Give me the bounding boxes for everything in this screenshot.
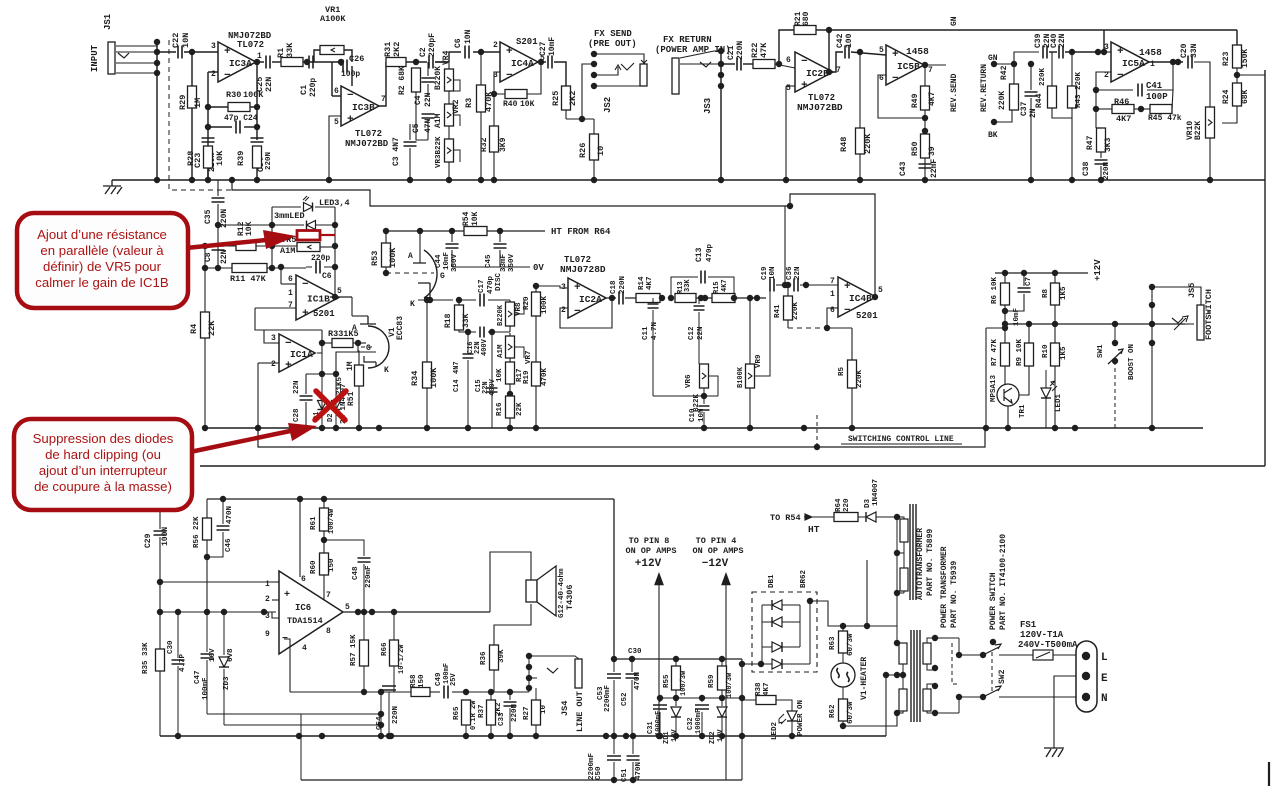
svg-text:350V: 350V xyxy=(508,253,516,272)
ground xyxy=(103,180,122,194)
svg-text:ZD2: ZD2 xyxy=(709,731,717,744)
led LED1 xyxy=(1041,388,1051,398)
power transformer core xyxy=(911,630,920,722)
wire primary dashed link xyxy=(952,643,960,684)
capacitor C4 xyxy=(422,78,435,82)
wire line out row xyxy=(466,691,529,693)
svg-text:T4306: T4306 xyxy=(565,584,575,610)
wire bridge interconnect xyxy=(761,605,763,664)
transformer secondary 2 xyxy=(899,689,907,711)
potentiometer VR7 xyxy=(506,336,515,358)
svg-text:R56 22K: R56 22K xyxy=(193,516,201,548)
wire secondary leads xyxy=(897,626,903,643)
svg-text:7: 7 xyxy=(326,591,331,600)
svg-text:BOOST ON: BOOST ON xyxy=(1128,344,1136,380)
svg-text:5: 5 xyxy=(878,286,883,295)
svg-text:4K7: 4K7 xyxy=(646,276,654,290)
svg-text:de hard clipping (ou: de hard clipping (ou xyxy=(45,447,161,462)
wire bottom frame top xyxy=(207,498,614,500)
capacitor C16 xyxy=(480,327,484,338)
svg-text:1: 1 xyxy=(265,580,270,589)
svg-text:5: 5 xyxy=(334,118,339,127)
svg-text:240V-T500mA: 240V-T500mA xyxy=(1018,640,1078,650)
svg-text:R64: R64 xyxy=(835,498,843,512)
svg-text:0V: 0V xyxy=(533,263,544,273)
svg-text:R36: R36 xyxy=(480,651,488,665)
svg-text:MPSA13: MPSA13 xyxy=(990,374,998,402)
svg-text:A1M: A1M xyxy=(497,344,505,358)
resistor R1 xyxy=(272,61,281,63)
wire +12V rail xyxy=(995,272,1088,274)
svg-text:FS1: FS1 xyxy=(1020,620,1037,630)
arrow -12V xyxy=(725,575,727,780)
capacitor C18 xyxy=(619,292,623,305)
resistor R43 xyxy=(1071,52,1073,86)
svg-text:+: + xyxy=(801,80,808,92)
svg-text:TO PIN 8: TO PIN 8 xyxy=(629,536,670,546)
resistor R13 xyxy=(675,294,696,303)
svg-text:R55: R55 xyxy=(663,674,671,688)
wire IC2A output xyxy=(604,297,616,299)
wire LED row 2 xyxy=(218,224,272,226)
svg-text:K: K xyxy=(384,366,389,375)
jack JS2 xyxy=(591,51,597,57)
scan artifact mark bottom right xyxy=(1268,762,1270,786)
svg-text:4N7: 4N7 xyxy=(453,361,461,374)
svg-text:IC5B: IC5B xyxy=(897,61,920,72)
svg-text:C6: C6 xyxy=(322,272,332,281)
ground mains earth xyxy=(1044,748,1064,757)
resistor R35 xyxy=(156,649,165,671)
resistor R46 xyxy=(1095,90,1097,109)
svg-text:100/3W: 100/3W xyxy=(680,670,688,696)
capacitor C53 xyxy=(607,674,621,678)
capacitor C35 xyxy=(217,180,219,196)
svg-text:5201: 5201 xyxy=(856,311,878,321)
svg-text:SWITCHING CONTROL LINE: SWITCHING CONTROL LINE xyxy=(848,435,954,444)
resistor R11 xyxy=(205,267,232,269)
autotransformer core xyxy=(910,504,916,600)
svg-text:POWER TRANSFORMER: POWER TRANSFORMER xyxy=(940,546,949,628)
wire VR9 wiper to C19 xyxy=(754,288,770,376)
resistor R16 xyxy=(506,396,515,418)
wire bridge to rails xyxy=(741,659,743,780)
diode D3 xyxy=(858,516,866,518)
svg-text:+: + xyxy=(347,114,354,126)
svg-text:A: A xyxy=(352,324,357,333)
svg-text:470p: 470p xyxy=(487,275,495,294)
wire reg node row xyxy=(660,697,742,699)
wire IC6 pin9 feedback xyxy=(279,634,290,636)
wire IC5A -in xyxy=(1096,72,1111,90)
svg-text:A1M: A1M xyxy=(280,246,295,256)
wire IC2B +in xyxy=(786,85,795,87)
wire zener rows xyxy=(207,713,381,715)
svg-text:7: 7 xyxy=(288,301,293,310)
wire base to switching line xyxy=(986,327,1005,329)
svg-text:JS1: JS1 xyxy=(103,13,113,30)
svg-text:10K: 10K xyxy=(471,211,480,226)
svg-text:220p: 220p xyxy=(309,78,318,97)
svg-text:R27: R27 xyxy=(523,706,531,720)
svg-text:V1-HEATER: V1-HEATER xyxy=(860,657,869,700)
svg-text:3: 3 xyxy=(265,612,270,621)
svg-text:C51: C51 xyxy=(621,768,629,782)
svg-text:+: + xyxy=(506,46,513,58)
zener ZD3 xyxy=(223,612,225,655)
svg-text:B100K: B100K xyxy=(737,366,745,388)
wire amp row2 xyxy=(160,611,276,613)
resistor R28 xyxy=(204,146,213,168)
svg-text:10: 10 xyxy=(540,704,548,714)
svg-text:FX RETURN: FX RETURN xyxy=(663,35,712,45)
svg-text:TDA1514: TDA1514 xyxy=(287,616,323,626)
svg-text:4K7: 4K7 xyxy=(763,682,771,696)
mains pin E xyxy=(1082,672,1090,680)
svg-text:+: + xyxy=(1117,46,1124,58)
resistor R9 xyxy=(1025,343,1034,366)
resistor R47 xyxy=(1095,109,1097,128)
svg-text:IC6: IC6 xyxy=(295,603,311,613)
svg-text:R53: R53 xyxy=(370,251,380,266)
svg-text:C50: C50 xyxy=(595,766,603,780)
svg-text:9: 9 xyxy=(265,630,270,639)
svg-text:33K: 33K xyxy=(462,313,471,328)
wire clipper node xyxy=(306,373,336,375)
svg-text:220N: 220N xyxy=(265,152,273,170)
wire amp input row xyxy=(160,581,271,583)
svg-text:C21: C21 xyxy=(727,45,736,60)
capacitor C31 xyxy=(659,698,661,702)
mains pin N xyxy=(1082,693,1090,701)
svg-text:220K: 220K xyxy=(856,369,864,388)
wire 0V bus bottom xyxy=(160,735,886,737)
mains connector xyxy=(1076,641,1097,712)
svg-text:R38: R38 xyxy=(755,682,763,696)
capacitor C32 xyxy=(701,698,703,702)
svg-text:R43 220K: R43 220K xyxy=(1075,71,1083,108)
svg-text:R19: R19 xyxy=(523,370,531,384)
svg-text:220mF: 220mF xyxy=(365,565,373,588)
svg-text:SW1: SW1 xyxy=(1097,344,1105,358)
capacitor C37 xyxy=(1025,92,1038,96)
svg-text:+: + xyxy=(224,46,231,58)
svg-text:C30: C30 xyxy=(628,648,642,656)
resistor R64 xyxy=(810,516,834,518)
svg-text:B220K: B220K xyxy=(434,66,443,90)
svg-text:POWER SWITCH: POWER SWITCH xyxy=(989,572,998,630)
svg-text:+: + xyxy=(302,308,309,320)
capacitor C52 xyxy=(626,674,639,678)
wire mid long line xyxy=(200,465,1265,467)
diode D2 xyxy=(332,401,341,410)
svg-text:HT FROM R64: HT FROM R64 xyxy=(551,227,611,237)
resistor R32 xyxy=(490,126,499,152)
svg-text:2: 2 xyxy=(561,306,566,315)
svg-text:NMJ0728D: NMJ0728D xyxy=(560,264,606,275)
capacitor C3 xyxy=(404,142,417,146)
svg-text:R48: R48 xyxy=(839,137,849,152)
zener ZD1 xyxy=(675,698,677,706)
resistor R40 xyxy=(494,72,505,94)
wire C22 to IC3A xyxy=(184,51,218,53)
svg-text:ajout d’un interrupteur: ajout d’un interrupteur xyxy=(39,463,168,478)
svg-text:R7 47K: R7 47K xyxy=(991,338,999,366)
resistor R6 xyxy=(1001,283,1010,305)
svg-text:220N: 220N xyxy=(392,706,400,724)
svg-text:R4: R4 xyxy=(189,324,199,334)
capacitor C25 xyxy=(266,56,270,69)
resistor R56 xyxy=(206,499,208,518)
svg-text:7: 7 xyxy=(836,66,841,75)
wire IC6 pin3 xyxy=(264,612,279,618)
svg-text:5: 5 xyxy=(345,603,350,612)
svg-text:C36: C36 xyxy=(786,266,794,280)
wire feedback row xyxy=(290,691,411,693)
svg-text:IC1B: IC1B xyxy=(307,294,330,305)
triode V1a xyxy=(424,250,437,298)
svg-text:VR9: VR9 xyxy=(755,354,763,368)
svg-text:N: N xyxy=(1101,693,1108,705)
wire IC6 pin6 supply xyxy=(299,499,301,577)
wire top ground bus xyxy=(112,179,1265,181)
svg-text:1K5: 1K5 xyxy=(1060,286,1068,300)
svg-text:10N: 10N xyxy=(769,266,777,280)
potentiometer VR10 xyxy=(1206,107,1215,138)
wire IC5B feedback xyxy=(878,75,925,118)
svg-text:3: 3 xyxy=(211,42,216,51)
svg-text:C47: C47 xyxy=(194,670,202,684)
wire right frame vertical xyxy=(1264,70,1266,466)
svg-text:C46: C46 xyxy=(225,538,233,552)
capacitor C38 xyxy=(1095,160,1108,164)
svg-text:R3: R3 xyxy=(464,98,474,108)
wire bridge to heater row xyxy=(810,601,897,626)
svg-text:10K: 10K xyxy=(520,100,535,109)
svg-text:R47: R47 xyxy=(1086,135,1095,150)
triode V1b xyxy=(368,326,389,368)
svg-text:C43: C43 xyxy=(899,161,908,176)
resistor R42 xyxy=(1010,84,1019,110)
svg-text:C44: C44 xyxy=(435,254,443,268)
capacitor C36 xyxy=(776,284,791,286)
svg-text:−12V: −12V xyxy=(702,558,729,570)
svg-text:1000mF: 1000mF xyxy=(655,711,663,736)
svg-text:A: A xyxy=(408,252,413,261)
svg-text:C45: C45 xyxy=(485,254,493,268)
svg-text:10mF: 10mF xyxy=(1013,307,1021,326)
wire neutral xyxy=(999,696,1078,698)
svg-text:R18: R18 xyxy=(444,313,453,328)
svg-text:6V8: 6V8 xyxy=(227,648,235,662)
svg-text:TO R54: TO R54 xyxy=(770,513,801,523)
svg-text:REV.SEND: REV.SEND xyxy=(950,73,959,112)
capacitor C40 xyxy=(1059,46,1063,59)
svg-text:10mF: 10mF xyxy=(548,37,557,56)
wire 0V row xyxy=(452,266,530,268)
wire top feed drop xyxy=(1103,30,1105,52)
svg-text:−: − xyxy=(224,70,231,82)
svg-text:220N: 220N xyxy=(619,276,627,294)
svg-text:SW2: SW2 xyxy=(998,669,1007,684)
wire cathode row xyxy=(418,299,453,301)
autotransformer winding 2 xyxy=(900,568,908,591)
svg-text:4K7: 4K7 xyxy=(721,279,729,292)
svg-text:16V: 16V xyxy=(209,648,217,662)
svg-text:R25: R25 xyxy=(551,91,561,106)
resistor R65 xyxy=(462,700,471,725)
svg-text:IC4B: IC4B xyxy=(849,293,872,304)
svg-text:10N: 10N xyxy=(181,33,191,48)
svg-text:220pF: 220pF xyxy=(428,33,437,57)
svg-text:DB1: DB1 xyxy=(768,574,776,588)
svg-text:10: 10 xyxy=(596,146,606,156)
svg-text:NMJ072BD: NMJ072BD xyxy=(345,139,389,149)
capacitor C14 xyxy=(467,332,469,352)
resistor R20 xyxy=(532,292,541,316)
capacitor C20 xyxy=(1188,56,1192,69)
svg-text:2K2: 2K2 xyxy=(392,42,402,57)
svg-text:2: 2 xyxy=(265,595,270,604)
resistor R17 xyxy=(506,362,515,384)
svg-text:−: − xyxy=(347,90,354,102)
svg-text:R50: R50 xyxy=(911,141,920,156)
svg-text:C54: C54 xyxy=(376,716,384,730)
resistor R57 xyxy=(360,640,369,666)
svg-text:470N: 470N xyxy=(635,762,643,780)
svg-text:GN: GN xyxy=(950,16,959,26)
svg-text:BR62: BR62 xyxy=(800,569,808,588)
svg-text:C29: C29 xyxy=(144,533,153,548)
svg-text:1: 1 xyxy=(830,290,835,299)
wire IC6 pin2 stub xyxy=(272,599,279,601)
capacitor C1 xyxy=(303,61,341,63)
capacitor C48 xyxy=(324,540,364,556)
svg-text:3mmLED: 3mmLED xyxy=(274,211,305,221)
svg-text:R16: R16 xyxy=(496,402,504,416)
svg-text:10-1/2W: 10-1/2W xyxy=(398,644,406,674)
svg-text:C32: C32 xyxy=(687,717,695,730)
svg-text:JS3: JS3 xyxy=(703,98,713,114)
svg-text:C17: C17 xyxy=(478,279,486,293)
svg-text:6: 6 xyxy=(288,275,293,284)
wire heater return xyxy=(843,713,897,726)
wire switching control line xyxy=(258,428,985,447)
node C22 out xyxy=(189,49,195,55)
svg-text:1M: 1M xyxy=(346,361,355,371)
resistor R50 xyxy=(924,118,926,128)
svg-text:R34: R34 xyxy=(410,371,420,386)
svg-text:C14: C14 xyxy=(453,379,461,392)
svg-text:100P: 100P xyxy=(1146,92,1168,102)
speaker xyxy=(526,580,537,602)
svg-text:6: 6 xyxy=(830,306,835,315)
resistor R59 xyxy=(718,666,727,690)
transformer primary 1 xyxy=(923,643,931,664)
svg-text:R66: R66 xyxy=(381,642,389,656)
svg-text:100K: 100K xyxy=(388,247,398,268)
svg-text:VR3B22K: VR3B22K xyxy=(435,136,443,168)
node switching dashed tap xyxy=(814,444,820,450)
wire IC3B feedback xyxy=(351,66,353,86)
led LED2 xyxy=(787,711,797,721)
svg-text:C49: C49 xyxy=(435,672,443,686)
transformer secondary 1 xyxy=(899,643,907,664)
svg-text:C6: C6 xyxy=(454,38,463,48)
switch SW2 xyxy=(980,652,986,658)
svg-text:C20: C20 xyxy=(1180,43,1189,58)
resistor R5 xyxy=(848,360,857,388)
svg-text:IC5A: IC5A xyxy=(1122,58,1145,69)
potentiometer VR9 xyxy=(746,364,755,388)
svg-text:TL072: TL072 xyxy=(355,129,382,139)
capacitor C51 xyxy=(627,756,640,760)
svg-text:2: 2 xyxy=(271,360,276,369)
svg-text:220K: 220K xyxy=(792,301,800,320)
svg-text:LED2: LED2 xyxy=(771,721,779,740)
resistor R34 xyxy=(423,362,432,388)
svg-text:REV.RETURN: REV.RETURN xyxy=(980,64,989,112)
capacitor C54 xyxy=(382,686,396,690)
resistor R66 xyxy=(390,640,399,666)
svg-text:33N: 33N xyxy=(1190,43,1199,58)
svg-text:60/3W: 60/3W xyxy=(847,701,855,724)
svg-text:C27: C27 xyxy=(539,41,548,56)
svg-text:R8: R8 xyxy=(1042,288,1050,298)
svg-text:C10: C10 xyxy=(689,408,697,422)
capacitor C44 xyxy=(451,231,453,242)
svg-text:K: K xyxy=(410,300,415,309)
svg-text:150: 150 xyxy=(418,674,426,688)
potentiometer VR3 xyxy=(445,139,454,162)
wire IC3A inverting input xyxy=(208,71,218,73)
svg-text:R40: R40 xyxy=(503,100,518,109)
svg-text:C26: C26 xyxy=(349,54,364,64)
svg-text:+12V: +12V xyxy=(635,558,662,570)
red arrow 1 xyxy=(186,240,266,248)
resistor R41 xyxy=(784,296,793,320)
svg-text:2: 2 xyxy=(493,41,498,50)
capacitor C7 xyxy=(1023,273,1025,286)
capacitor C2 xyxy=(429,56,433,69)
svg-text:R6 10K: R6 10K xyxy=(991,276,999,304)
svg-text:−: − xyxy=(844,305,851,317)
svg-text:R23: R23 xyxy=(1222,51,1231,66)
resistor R37 xyxy=(487,700,496,725)
svg-text:R57 15K: R57 15K xyxy=(350,634,358,666)
svg-text:POWER ON: POWER ON xyxy=(797,700,805,736)
svg-text:NMJ072BD: NMJ072BD xyxy=(797,102,843,113)
capacitor C45 xyxy=(499,231,501,242)
arrow +12V xyxy=(658,575,660,736)
capacitor C43 xyxy=(919,164,932,168)
svg-text:JS4: JS4 xyxy=(560,701,570,716)
svg-text:1K5: 1K5 xyxy=(1060,346,1068,360)
svg-text:R14: R14 xyxy=(638,276,646,290)
resistor R15 xyxy=(712,294,735,303)
svg-text:IC1A: IC1A xyxy=(290,349,313,360)
resistor R62 xyxy=(839,699,848,721)
svg-text:22K: 22K xyxy=(516,402,524,416)
node input jack shield xyxy=(154,39,160,45)
svg-text:−: − xyxy=(892,73,899,85)
wire IC6 output xyxy=(343,611,490,613)
resistor R55 xyxy=(672,666,681,690)
led LED4 xyxy=(272,224,304,226)
wire triode grid dashed xyxy=(386,272,434,274)
resistor R52 xyxy=(355,365,364,386)
svg-text:68K: 68K xyxy=(1241,89,1250,104)
